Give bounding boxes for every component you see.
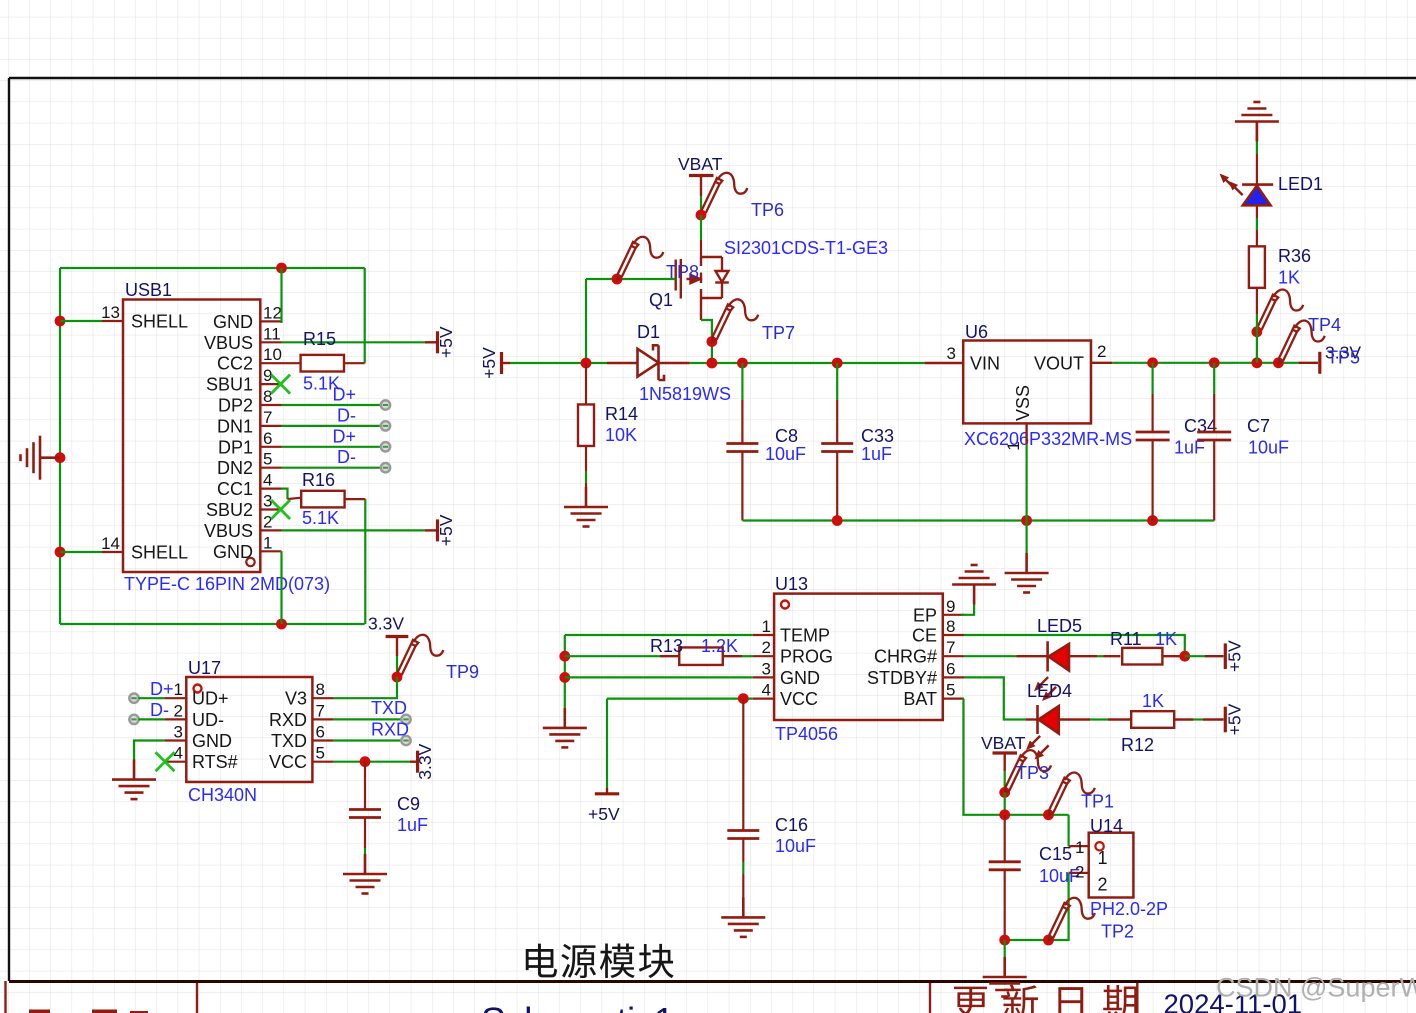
svg-text:8: 8 xyxy=(316,680,325,699)
svg-text:1: 1 xyxy=(1004,441,1023,450)
svg-text:GND: GND xyxy=(780,668,820,688)
svg-text:CH340N: CH340N xyxy=(188,785,257,805)
svg-text:USB1: USB1 xyxy=(125,280,172,300)
wire shell14 xyxy=(60,551,102,553)
svg-text:R15: R15 xyxy=(303,329,336,349)
wire shell13 xyxy=(60,320,102,322)
svg-text:+5V: +5V xyxy=(436,326,456,358)
USB1 pin1 dot marker xyxy=(246,558,254,566)
power +5V (R12) bar xyxy=(1224,707,1227,733)
svg-text:V3: V3 xyxy=(285,689,307,709)
svg-text:D+: D+ xyxy=(332,426,356,446)
svg-text:10uF: 10uF xyxy=(775,836,816,856)
svg-text:10uF: 10uF xyxy=(1248,438,1289,458)
connector USB1 body xyxy=(123,300,260,573)
LED5 right lead xyxy=(1069,655,1097,657)
wire BAT down xyxy=(964,699,1069,815)
svg-text:5: 5 xyxy=(316,744,325,763)
wire U6 vss gnd xyxy=(1025,521,1027,554)
ground C16 xyxy=(721,897,765,937)
svg-text:D-: D- xyxy=(337,405,356,425)
svg-text:2: 2 xyxy=(1097,342,1106,361)
svg-text:1K: 1K xyxy=(1278,268,1300,288)
svg-text:Q1: Q1 xyxy=(649,290,673,310)
svg-text:10uF: 10uF xyxy=(765,444,806,464)
svg-text:9: 9 xyxy=(946,597,955,616)
U17 pin3 stub xyxy=(165,739,186,741)
resistor R36 xyxy=(1249,246,1265,288)
wire gnd bottom xyxy=(60,623,365,625)
junction VCC/C16 xyxy=(738,693,749,704)
svg-text:13: 13 xyxy=(101,303,120,322)
svg-text:STDBY#: STDBY# xyxy=(867,668,937,688)
wire U17 pin7 TXD xyxy=(334,718,402,720)
wire U17 VCC xyxy=(334,761,410,763)
capacitor C33 top lead xyxy=(836,363,838,400)
svg-text:6: 6 xyxy=(316,723,325,742)
R15 right lead xyxy=(344,362,365,364)
svg-text:U6: U6 xyxy=(965,322,988,342)
capacitor C8 xyxy=(726,444,758,452)
svg-text:LED1: LED1 xyxy=(1278,174,1323,194)
wire DN2 xyxy=(282,467,382,469)
testpoint TP5 hook xyxy=(1279,321,1325,364)
wire DP2 xyxy=(282,404,382,406)
IC U13 body xyxy=(774,594,943,720)
svg-text:UD-: UD- xyxy=(192,710,224,730)
svg-text:GND: GND xyxy=(213,312,253,332)
capacitor C15 xyxy=(989,862,1021,870)
USB1 pin12 stub xyxy=(260,320,281,322)
USB1 pin9 stub xyxy=(260,383,281,385)
U17 pin7 stub xyxy=(312,718,333,720)
svg-text:C33: C33 xyxy=(861,426,894,446)
U17 pin1 stub xyxy=(165,697,186,699)
R15 left lead xyxy=(282,362,301,364)
wire gnd right vertical lower xyxy=(364,499,366,624)
wire U17 pin2 xyxy=(138,718,165,720)
wire VCC xyxy=(607,697,753,699)
resistor R14 xyxy=(578,404,594,446)
IC U6 body xyxy=(963,341,1091,424)
resistor R14 top lead xyxy=(585,363,587,405)
wire C15 gnd down xyxy=(1004,940,1006,957)
wire R11 to +5V xyxy=(1185,655,1205,657)
title block top line xyxy=(9,980,1416,983)
ground U6 vss xyxy=(1005,553,1049,593)
junction C34/gnd xyxy=(1147,515,1158,526)
wire U14 pin1 up xyxy=(1067,815,1069,846)
power +5V (R11) bar xyxy=(1224,643,1227,669)
svg-text:2: 2 xyxy=(1098,875,1108,895)
USB1 pin3 stub xyxy=(260,508,281,510)
svg-text:C15: C15 xyxy=(1039,844,1072,864)
junction CE/R11 xyxy=(1179,651,1190,662)
junction C34/rail xyxy=(1147,357,1158,368)
power +5V (rail left) bar xyxy=(500,352,503,374)
capacitor C8 bottom lead xyxy=(741,452,743,521)
diode LED4 xyxy=(1038,705,1059,734)
diode D1 xyxy=(638,345,665,380)
U13 pin1 indicator xyxy=(781,601,789,609)
LED1 top lead xyxy=(1256,121,1258,141)
USB1 pin14 stub xyxy=(102,551,123,553)
capacitor C15 bottom lead xyxy=(1004,870,1006,940)
junction TP5/rail xyxy=(1273,357,1284,368)
svg-text:+5V: +5V xyxy=(479,347,499,379)
wire DP1 xyxy=(282,446,382,448)
wire CE to +5V xyxy=(964,635,1185,656)
capacitor C9 top lead xyxy=(364,762,366,810)
no-ERC cross SBU1 xyxy=(271,375,290,394)
svg-text:6: 6 xyxy=(946,659,955,678)
svg-text:D-: D- xyxy=(150,700,169,720)
svg-text:10: 10 xyxy=(263,345,282,364)
svg-text:2: 2 xyxy=(762,638,771,657)
U17 pin8 stub xyxy=(312,697,333,699)
net port TXD xyxy=(401,715,410,724)
U6 pin3 stub xyxy=(925,362,963,364)
wire 3.3V to tp9 junction xyxy=(396,656,398,677)
svg-text:1.2K: 1.2K xyxy=(701,636,738,656)
power +5V lead xyxy=(502,362,511,364)
title block divider x1137 xyxy=(1136,983,1138,1013)
power +5V (usb bottom) bar xyxy=(436,519,439,541)
power +5V (usb bottom) lead xyxy=(425,529,436,531)
diode D1 cathode lead xyxy=(659,362,690,364)
junction C7/rail xyxy=(1209,357,1220,368)
svg-text:XC6206P332MR-MS: XC6206P332MR-MS xyxy=(964,429,1132,449)
junction C33/gnd xyxy=(832,515,843,526)
svg-text:TP4: TP4 xyxy=(1308,315,1341,335)
svg-text:TP2: TP2 xyxy=(1101,922,1134,942)
svg-text:C16: C16 xyxy=(775,815,808,835)
no-ERC cross RTS# xyxy=(156,752,175,771)
power VBAT (U13) bar xyxy=(993,751,1018,754)
svg-text:TEMP: TEMP xyxy=(780,626,830,646)
testpoint TP1 hook xyxy=(1049,773,1095,816)
junction VBAT/batrail xyxy=(999,809,1010,820)
svg-text:3: 3 xyxy=(947,344,956,363)
power +5V (usb top) lead xyxy=(425,341,436,343)
svg-text:14: 14 xyxy=(101,534,120,553)
svg-text:U17: U17 xyxy=(188,658,221,678)
svg-text:D-: D- xyxy=(337,447,356,467)
svg-text:D1: D1 xyxy=(637,322,660,342)
svg-text:TP4056: TP4056 xyxy=(775,724,838,744)
svg-text:8: 8 xyxy=(946,617,955,636)
svg-text:C8: C8 xyxy=(775,426,798,446)
svg-text:R11: R11 xyxy=(1110,629,1142,649)
svg-text:3.3V: 3.3V xyxy=(415,743,435,779)
USB1 pin2 stub xyxy=(260,529,281,531)
U13 pin4 stub xyxy=(753,697,774,699)
testpoint TP9 hook xyxy=(397,635,443,678)
wire U14 pin2 down xyxy=(1005,873,1069,940)
svg-text:D+: D+ xyxy=(150,679,174,699)
svg-text:TXD: TXD xyxy=(371,698,407,718)
capacitor C7 top lead xyxy=(1213,363,1215,394)
wire GND row xyxy=(565,676,753,678)
wire rail 3v3 xyxy=(1112,362,1298,364)
power VBAT (top) stem xyxy=(700,176,702,197)
U13 pin7 stub xyxy=(943,655,964,657)
svg-text:7: 7 xyxy=(946,638,955,657)
resistor R15 xyxy=(301,355,344,372)
wire tp3 to bat rail xyxy=(1004,792,1006,814)
resistor R16 xyxy=(301,491,344,508)
svg-text:C9: C9 xyxy=(397,794,420,814)
svg-text:R16: R16 xyxy=(302,470,335,490)
capacitor C15 top lead xyxy=(1004,815,1006,862)
USB1 pin8 stub xyxy=(260,404,281,406)
svg-text:3: 3 xyxy=(762,659,771,678)
junction C15/gnd xyxy=(999,935,1010,946)
svg-text:DP2: DP2 xyxy=(218,396,253,416)
U13 pin9 stub xyxy=(943,614,964,616)
ground U17 xyxy=(112,760,156,800)
svg-text:SHELL: SHELL xyxy=(131,312,188,332)
resistor R13 xyxy=(679,647,723,665)
title block divider x197 xyxy=(196,983,198,1013)
svg-text:5: 5 xyxy=(946,681,955,700)
USB1 pin5 stub xyxy=(260,467,281,469)
junction shell13 xyxy=(55,316,66,327)
junction TP7 xyxy=(707,336,718,347)
connector U14 body xyxy=(1089,833,1134,898)
sheet border left xyxy=(8,78,10,981)
svg-text:7: 7 xyxy=(316,701,325,720)
testpoint TP7 hook xyxy=(712,299,758,342)
R11 right lead xyxy=(1162,655,1184,657)
power +5V (usb top) bar xyxy=(436,331,439,353)
U17 pin1 indicator xyxy=(194,685,202,693)
capacitor C9 xyxy=(349,810,381,818)
svg-text:LED5: LED5 xyxy=(1037,616,1082,636)
LED5 left lead xyxy=(1017,655,1048,657)
U14 pin1 stub xyxy=(1069,845,1089,847)
svg-text:R14: R14 xyxy=(605,404,638,424)
svg-text:SBU2: SBU2 xyxy=(206,500,253,520)
svg-text:5.1K: 5.1K xyxy=(302,508,339,528)
svg-text:RXD: RXD xyxy=(269,710,307,730)
wire tp9 down to V3 xyxy=(334,677,397,698)
IC U17 body xyxy=(186,677,312,782)
wire pin12 to gnd top xyxy=(280,268,282,323)
U6 pin1 stub xyxy=(1025,423,1027,444)
capacitor C16 xyxy=(727,831,759,839)
USB1 pin13 stub xyxy=(102,320,123,322)
junction TP8 xyxy=(612,274,623,285)
svg-text:U14: U14 xyxy=(1090,816,1123,836)
wire R36 to rail xyxy=(1256,332,1258,363)
wire PROG to R13 xyxy=(565,655,660,657)
U13 pin6 stub xyxy=(943,676,964,678)
capacitor C16 top lead xyxy=(742,699,744,831)
svg-text:4: 4 xyxy=(263,471,272,490)
wire gnd mid horizontal xyxy=(742,519,1214,521)
svg-text:VBAT: VBAT xyxy=(981,733,1026,753)
R16 right lead xyxy=(345,498,366,500)
R13 right lead xyxy=(723,655,742,657)
net port D+ (DP2) xyxy=(381,400,390,409)
svg-text:7: 7 xyxy=(263,408,272,427)
power 3.3V (rail) bar xyxy=(1318,352,1321,374)
power 3.3V (TP9) stem xyxy=(396,637,398,657)
svg-text:SBU1: SBU1 xyxy=(206,375,253,395)
svg-text:+5V: +5V xyxy=(436,514,456,546)
svg-text:LED4: LED4 xyxy=(1027,681,1072,701)
power VBAT (top) bar xyxy=(689,174,714,177)
wire left vertical gnd xyxy=(564,635,566,708)
junction TP2/gnd xyxy=(1043,935,1054,946)
wire gate xyxy=(586,278,676,280)
svg-text:VCC: VCC xyxy=(269,752,307,772)
wire gnd left vertical xyxy=(59,268,61,624)
junction TP7/rail xyxy=(707,358,718,369)
no-ERC cross SBU2 xyxy=(271,500,290,519)
svg-text:BAT: BAT xyxy=(903,689,937,709)
net port D- (DN2) xyxy=(381,463,390,472)
title block left edge xyxy=(4,981,6,1013)
svg-text:1K: 1K xyxy=(1142,691,1164,711)
wire vbat to tp6 xyxy=(700,196,702,215)
junction TP1/batrail xyxy=(1043,809,1054,820)
svg-text:PH2.0-2P: PH2.0-2P xyxy=(1090,899,1168,919)
svg-text:SI2301CDS-T1-GE3: SI2301CDS-T1-GE3 xyxy=(724,238,888,258)
wire U17 pin1 xyxy=(138,697,165,699)
svg-text:VSS: VSS xyxy=(1013,385,1033,421)
wire STDBY# to LED4 xyxy=(964,677,1026,719)
capacitor C33 xyxy=(821,444,853,452)
ground R14 xyxy=(564,487,608,527)
svg-text:R12: R12 xyxy=(1121,735,1154,755)
svg-text:DN1: DN1 xyxy=(217,416,253,436)
junction C33/rail xyxy=(832,358,843,369)
svg-text:12: 12 xyxy=(263,303,282,322)
svg-text:CE: CE xyxy=(912,626,937,646)
wire vbat to tp3 xyxy=(1004,771,1006,792)
sheet border top xyxy=(9,77,1416,79)
wire rail middle xyxy=(690,362,925,364)
svg-text:TP6: TP6 xyxy=(751,200,784,220)
wire rail left xyxy=(510,362,607,364)
U13 pin8 stub xyxy=(943,634,964,636)
svg-text:1uF: 1uF xyxy=(397,815,428,835)
svg-text:CC2: CC2 xyxy=(217,354,253,374)
junction TP9 xyxy=(392,672,403,683)
U17 pin4 stub xyxy=(165,761,186,763)
ground bottom (vbat) xyxy=(983,957,1027,997)
LED4 arrows xyxy=(1023,733,1051,762)
svg-text:TP1: TP1 xyxy=(1081,792,1114,812)
junction PROG xyxy=(559,651,570,662)
svg-text:5: 5 xyxy=(263,450,272,469)
capacitor C33 bottom lead xyxy=(836,452,838,521)
testpoint TP6 hook xyxy=(701,173,747,216)
power 3.3V (U17) lead xyxy=(410,761,416,763)
svg-text:CC1: CC1 xyxy=(217,479,253,499)
title cell text fragment xyxy=(29,1010,148,1013)
ground EP (flipped) xyxy=(952,565,996,605)
LED5 arrows xyxy=(1031,674,1059,704)
U14 pin1 indicator xyxy=(1095,842,1103,850)
wire U17 gnd xyxy=(134,741,165,761)
diode D1 anode lead xyxy=(607,362,638,364)
Q1 source lead xyxy=(700,299,702,320)
power +5V (R11) lead xyxy=(1205,655,1224,657)
svg-text:U13: U13 xyxy=(775,574,808,594)
wire pin11 VBUS to +5V xyxy=(282,341,426,343)
power +5V (U13) stem xyxy=(606,788,608,794)
diode LED1 xyxy=(1242,185,1273,206)
R12 right lead xyxy=(1174,718,1193,720)
USB1 pin4 stub xyxy=(260,488,281,490)
wire U17 pin6 RXD xyxy=(334,739,402,741)
svg-text:1: 1 xyxy=(762,617,771,636)
junction U6 vss/gnd xyxy=(1021,515,1032,526)
testpoint TP8 hook xyxy=(617,237,663,280)
junction gnd bottom / pin1 xyxy=(276,619,287,630)
power +5V (U13) bar xyxy=(595,792,619,795)
wire CC1 jog xyxy=(282,489,288,500)
svg-text:TP5: TP5 xyxy=(1327,348,1360,368)
USB1 pin1 stub xyxy=(260,550,281,552)
wire +5V drop xyxy=(606,699,608,788)
ground LED1 (flipped) xyxy=(1235,102,1279,142)
svg-text:TP7: TP7 xyxy=(762,323,795,343)
svg-text:C7: C7 xyxy=(1247,416,1270,436)
capacitor C8 top lead xyxy=(741,363,743,400)
junction VCC/C9 xyxy=(360,756,371,767)
U13 pin5 stub xyxy=(943,697,964,699)
LED4 left lead xyxy=(1026,718,1038,720)
U17 pin5 stub xyxy=(312,761,333,763)
svg-text:VOUT: VOUT xyxy=(1034,354,1084,374)
LED1 arrows xyxy=(1217,171,1246,198)
svg-text:3: 3 xyxy=(174,723,183,742)
U17 pin6 stub xyxy=(312,739,333,741)
svg-text:RTS#: RTS# xyxy=(192,752,238,772)
svg-text:VBUS: VBUS xyxy=(204,333,253,353)
svg-text:8: 8 xyxy=(263,387,272,406)
capacitor C34 bottom lead xyxy=(1151,440,1153,521)
svg-text:D+: D+ xyxy=(332,385,356,405)
LED4 right lead xyxy=(1059,718,1090,720)
capacitor C34 top lead xyxy=(1151,363,1153,394)
wire pin2 VBUS to +5V xyxy=(282,529,426,531)
capacitor C9 bottom lead xyxy=(364,818,366,849)
USB1 pin11 stub xyxy=(260,341,281,343)
USB1 pin6 stub xyxy=(260,446,281,448)
junction gnd top / pin12 xyxy=(276,263,287,274)
net port D- (DN1) xyxy=(381,421,390,430)
svg-text:RXD: RXD xyxy=(371,720,409,740)
svg-text:Schematic1: Schematic1 xyxy=(481,1001,674,1013)
wire TEMP xyxy=(565,634,753,636)
net port D+ (U17) xyxy=(129,694,138,703)
LED1 bottom lead xyxy=(1256,206,1258,219)
junction R36/rail xyxy=(1252,357,1263,368)
svg-text:SHELL: SHELL xyxy=(131,543,188,563)
svg-text:TYPE-C 16PIN 2MD(073): TYPE-C 16PIN 2MD(073) xyxy=(124,574,330,594)
U6 pin2 stub xyxy=(1091,362,1112,364)
Q1 drain lead xyxy=(700,240,702,258)
U13 pin1 stub xyxy=(753,634,774,636)
junction C8/rail xyxy=(737,358,748,369)
svg-text:TXD: TXD xyxy=(271,731,307,751)
junction GND xyxy=(559,672,570,683)
